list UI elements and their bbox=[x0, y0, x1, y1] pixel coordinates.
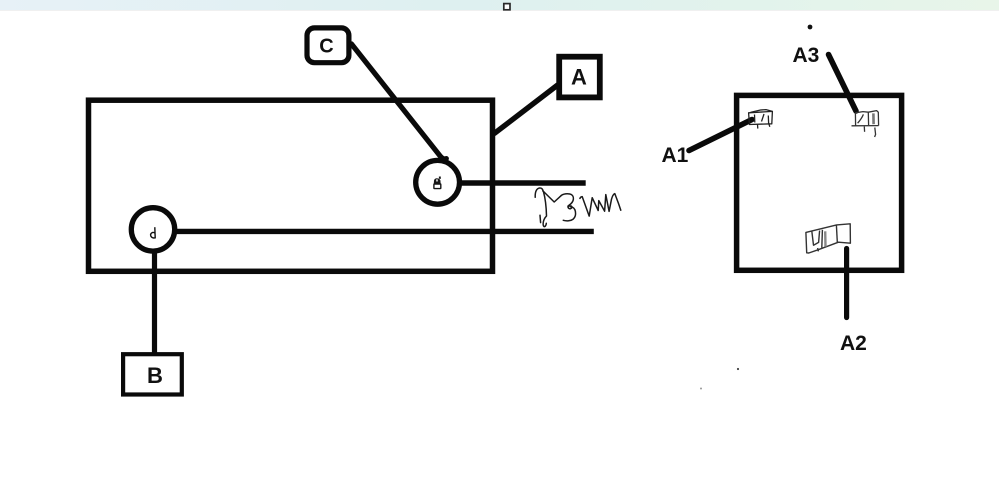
svg-text:A1: A1 bbox=[662, 144, 689, 167]
svg-text:B: B bbox=[147, 363, 163, 388]
svg-text:A3: A3 bbox=[793, 44, 820, 67]
svg-text:A2: A2 bbox=[840, 332, 867, 355]
svg-text:C: C bbox=[319, 36, 333, 58]
svg-text:A: A bbox=[571, 65, 587, 90]
